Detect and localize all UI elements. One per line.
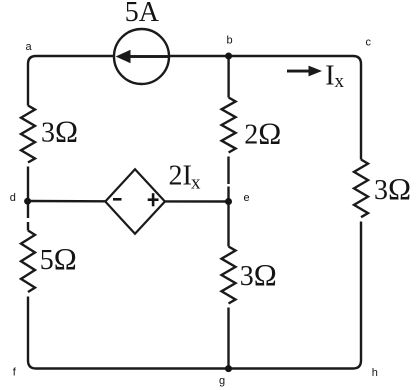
- svg-text:x: x: [335, 71, 345, 92]
- svg-text:d: d: [10, 192, 16, 204]
- svg-text:e: e: [244, 192, 250, 204]
- svg-text:3Ω: 3Ω: [41, 114, 78, 149]
- svg-text:a: a: [26, 41, 33, 53]
- svg-text:3Ω: 3Ω: [240, 257, 277, 292]
- svg-text:b: b: [227, 35, 233, 47]
- svg-text:h: h: [372, 367, 378, 379]
- svg-text:2I: 2I: [169, 161, 192, 192]
- svg-text:3Ω: 3Ω: [374, 171, 411, 206]
- svg-text:g: g: [219, 375, 225, 387]
- svg-text:5A: 5A: [125, 0, 160, 28]
- svg-text:5Ω: 5Ω: [40, 241, 77, 276]
- svg-text:I: I: [325, 61, 334, 92]
- svg-text:2Ω: 2Ω: [244, 115, 281, 150]
- svg-text:x: x: [191, 172, 201, 193]
- svg-text:c: c: [366, 36, 372, 48]
